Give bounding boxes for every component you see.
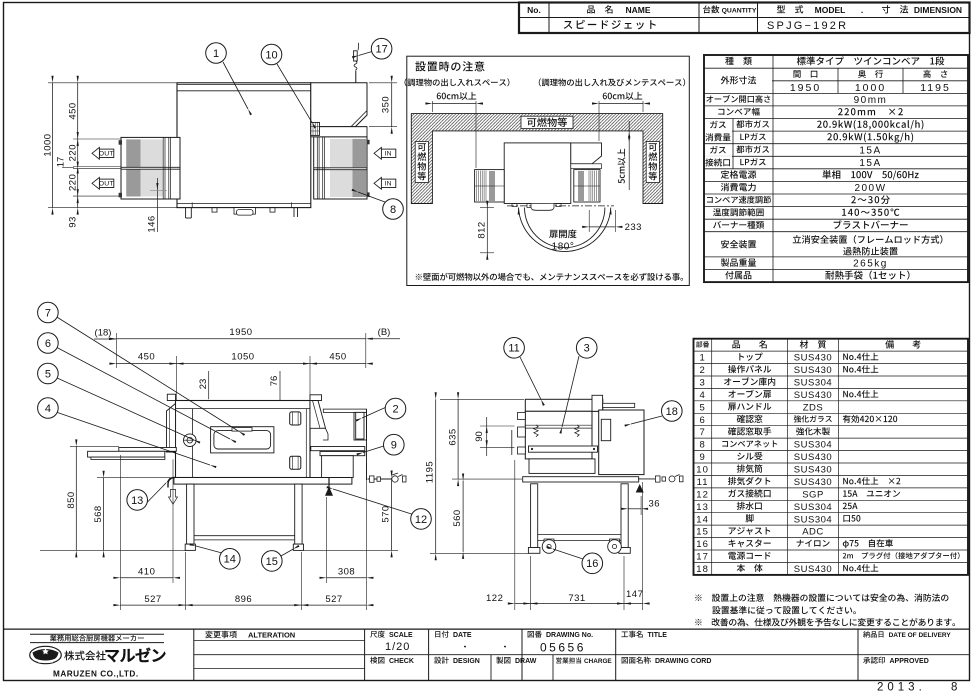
svg-text:DRAW: DRAW: [515, 658, 537, 665]
svg-text:(18): (18): [95, 327, 112, 338]
svg-text:410: 410: [138, 566, 155, 577]
svg-text:4: 4: [45, 403, 51, 415]
svg-text:DATE: DATE: [453, 632, 472, 639]
svg-text:147: 147: [626, 589, 643, 600]
svg-text:6: 6: [45, 338, 51, 350]
svg-text:350: 350: [380, 96, 391, 113]
svg-text:36: 36: [649, 499, 661, 510]
svg-text:SUS304: SUS304: [794, 514, 832, 525]
svg-text:180°: 180°: [552, 242, 575, 253]
svg-text:1050: 1050: [231, 352, 254, 363]
svg-text:17: 17: [696, 552, 709, 563]
svg-text:No.: No.: [527, 5, 541, 15]
svg-text:560: 560: [452, 509, 463, 526]
svg-text:14: 14: [224, 554, 236, 566]
svg-text:IN: IN: [385, 181, 392, 188]
svg-text:1: 1: [213, 48, 219, 60]
svg-text:1950: 1950: [229, 327, 252, 338]
svg-text:16: 16: [696, 539, 709, 550]
svg-text:3: 3: [699, 378, 705, 389]
svg-text:9: 9: [391, 440, 397, 452]
svg-text:850: 850: [66, 491, 77, 508]
svg-text:1/20: 1/20: [385, 641, 410, 653]
svg-text:SUS430: SUS430: [794, 452, 832, 463]
svg-text:ZDS: ZDS: [803, 402, 824, 413]
svg-text:SUS430: SUS430: [794, 365, 832, 376]
svg-text:8: 8: [390, 204, 396, 216]
svg-text:5: 5: [699, 402, 705, 413]
svg-text:2: 2: [392, 404, 398, 416]
svg-text:SCALE: SCALE: [389, 632, 413, 639]
svg-text:233: 233: [625, 222, 642, 233]
svg-text:1195: 1195: [424, 461, 435, 483]
svg-text:2: 2: [699, 365, 705, 376]
svg-text:450: 450: [138, 352, 155, 363]
svg-text:MODEL: MODEL: [815, 5, 846, 15]
svg-text:OUT: OUT: [99, 181, 114, 188]
svg-text:570: 570: [381, 505, 392, 522]
svg-text:1195: 1195: [920, 82, 951, 94]
svg-text:DESIGN: DESIGN: [453, 658, 480, 665]
svg-text:MARUZEN CO.,LTD.: MARUZEN CO.,LTD.: [53, 670, 139, 679]
svg-text:1: 1: [699, 353, 705, 364]
svg-text:15: 15: [266, 556, 278, 568]
svg-text:・: ・: [500, 642, 509, 652]
svg-text:17: 17: [375, 44, 387, 56]
svg-text:SUS430: SUS430: [794, 465, 832, 476]
svg-text:SUS430: SUS430: [794, 353, 832, 364]
svg-text:6: 6: [699, 415, 705, 426]
svg-text:15A: 15A: [859, 146, 881, 157]
svg-text:527: 527: [144, 594, 161, 605]
svg-text:SUS430: SUS430: [794, 477, 832, 488]
svg-text:146: 146: [146, 215, 157, 232]
svg-text:ALTERATION: ALTERATION: [248, 631, 295, 640]
svg-text:812: 812: [476, 221, 487, 238]
svg-text:11: 11: [697, 477, 709, 488]
svg-text:05656: 05656: [540, 641, 586, 655]
svg-text:DRAWING CORD: DRAWING CORD: [655, 658, 711, 665]
svg-text:450: 450: [67, 102, 78, 119]
svg-text:122: 122: [486, 593, 503, 604]
svg-text:15: 15: [696, 527, 709, 538]
svg-text:76: 76: [269, 376, 280, 387]
svg-text:13: 13: [696, 502, 709, 513]
svg-text:CHARGE: CHARGE: [584, 658, 612, 665]
svg-text:SPJG−192R: SPJG−192R: [767, 20, 848, 32]
svg-text:90mm: 90mm: [854, 95, 888, 106]
svg-text:265kg: 265kg: [853, 259, 888, 270]
svg-text:17: 17: [55, 157, 66, 168]
svg-text:SGP: SGP: [802, 489, 824, 500]
svg-text:IN: IN: [385, 151, 392, 158]
svg-text:16: 16: [586, 558, 598, 570]
svg-text:14: 14: [696, 514, 709, 525]
svg-text:SUS430: SUS430: [794, 564, 832, 575]
svg-text:1000: 1000: [42, 133, 53, 156]
svg-text:220: 220: [67, 174, 78, 191]
svg-text:18: 18: [696, 564, 709, 575]
svg-text:220: 220: [67, 144, 78, 161]
svg-text:TITLE: TITLE: [648, 632, 668, 639]
svg-text:7: 7: [699, 427, 705, 438]
svg-text:12: 12: [415, 514, 427, 526]
svg-text:QUANTITY: QUANTITY: [722, 7, 757, 14]
svg-text:1950: 1950: [790, 82, 821, 94]
svg-text:.: .: [861, 5, 863, 15]
svg-text:2013.: 2013.: [877, 682, 926, 692]
svg-text:13: 13: [131, 495, 143, 507]
svg-text:4: 4: [699, 390, 705, 401]
svg-text:450: 450: [329, 352, 346, 363]
svg-text:8: 8: [951, 682, 957, 692]
svg-text:9: 9: [699, 452, 705, 463]
svg-text:896: 896: [235, 594, 252, 605]
svg-text:SUS304: SUS304: [794, 378, 832, 389]
svg-text:ADC: ADC: [802, 527, 824, 538]
svg-text:7: 7: [45, 307, 51, 319]
svg-text:10: 10: [696, 465, 709, 476]
svg-text:11: 11: [508, 343, 519, 355]
svg-text:DATE OF DELIVERY: DATE OF DELIVERY: [889, 632, 952, 639]
svg-text:10: 10: [265, 49, 277, 61]
svg-text:527: 527: [325, 594, 342, 605]
svg-text:DRAWING No.: DRAWING No.: [546, 632, 593, 639]
svg-text:MARUZEN: MARUZEN: [38, 660, 53, 664]
svg-text:635: 635: [447, 428, 458, 445]
svg-text:OUT: OUT: [99, 151, 114, 158]
svg-text:1000: 1000: [855, 82, 886, 94]
svg-text:568: 568: [93, 505, 104, 522]
svg-text:23: 23: [198, 379, 209, 390]
svg-text:・: ・: [460, 642, 469, 652]
svg-text:15A: 15A: [859, 158, 881, 169]
svg-text:SUS430: SUS430: [794, 390, 832, 401]
svg-text:SUS304: SUS304: [794, 440, 832, 451]
svg-text:90: 90: [474, 431, 485, 442]
svg-text:5: 5: [45, 368, 51, 380]
svg-text:8: 8: [699, 440, 705, 451]
svg-text:APPROVED: APPROVED: [890, 658, 929, 665]
svg-text:3: 3: [584, 343, 590, 355]
svg-text:93: 93: [67, 216, 78, 228]
svg-text:CHECK: CHECK: [389, 658, 414, 665]
svg-text:DIMENSION: DIMENSION: [914, 5, 962, 15]
svg-text:NAME: NAME: [625, 5, 650, 15]
svg-text:308: 308: [338, 566, 355, 577]
svg-text:SUS304: SUS304: [794, 502, 832, 513]
svg-text:(B): (B): [378, 327, 391, 338]
svg-text:200W: 200W: [854, 183, 886, 194]
svg-text:18: 18: [666, 406, 678, 418]
svg-text:731: 731: [568, 593, 585, 604]
svg-text:12: 12: [696, 489, 709, 500]
